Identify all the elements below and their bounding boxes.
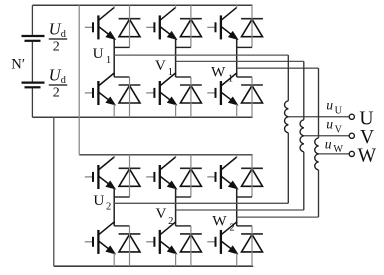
- svg-text:2: 2: [168, 216, 173, 227]
- inductor winding phase U: [285, 101, 289, 133]
- wire: W1 drop to winding W: [318, 68, 320, 138]
- wire: terminal tap U: [288, 116, 349, 118]
- wire: phase output W1: [237, 67, 319, 69]
- wire: V1 drop to winding V: [303, 61, 305, 119]
- wire: emitter stub QV1L to - rail: [175, 104, 177, 117]
- diode DU1L (freewheel lower leg U1): [119, 85, 141, 103]
- wire: emitter-diode jog upper leg W2: [237, 196, 252, 198]
- wire: diode DU1H branch vertical: [129, 5, 131, 47]
- wire: collector stub QW2H: [236, 155, 238, 158]
- diode DV1L (freewheel lower leg V1): [180, 85, 202, 103]
- wire: diode DW2H branch vertical: [251, 155, 253, 197]
- node U2 midpoint vertical: [113, 188, 115, 226]
- wire: emitter-diode jog upper leg U2: [114, 196, 129, 198]
- wire: left vertical - return to bottom bridge: [53, 117, 55, 266]
- wire: diode DV2L branch vertical: [190, 226, 192, 266]
- diode DW2L (freewheel lower leg W2): [241, 234, 263, 252]
- wire: left vertical + feed to bottom bridge: [78, 5, 80, 155]
- svg-text:U: U: [335, 105, 343, 116]
- wire: phase output U1: [114, 54, 288, 56]
- node U1 midpoint vertical: [113, 38, 115, 77]
- wire: emitter stub QW2L to - rail: [236, 253, 238, 266]
- diode DV2H (freewheel upper leg V2): [180, 168, 202, 186]
- wire: collector-diode jog lower leg V2: [176, 225, 191, 227]
- wire: diode DW1H branch vertical: [251, 5, 253, 47]
- wire: phase output U2: [114, 202, 288, 204]
- diode DU2H (freewheel upper leg U2): [119, 168, 141, 186]
- wire: emitter stub QV2L to - rail: [175, 253, 177, 266]
- diode DV2L (freewheel lower leg V2): [180, 234, 202, 252]
- capacitor C2 (Ud/2 lower): [22, 81, 45, 83]
- wire: diode DW1L branch vertical: [251, 77, 253, 117]
- wire: diode DV1L branch vertical: [190, 77, 192, 117]
- wire: emitter stub QU1L to - rail: [113, 104, 115, 117]
- wire: DC midrail (top bridge -, bottom bridge + feed): [32, 116, 252, 118]
- wire: diode DV1H branch vertical: [190, 5, 192, 47]
- wire: winding V to V2: [303, 152, 305, 210]
- svg-text:u: u: [326, 117, 333, 132]
- IGBT QW1H (upper switch leg W1): [207, 7, 237, 39]
- node W2 midpoint vertical: [236, 188, 238, 226]
- terminal W (circle): [349, 151, 354, 156]
- IGBT QW1L (lower switch leg W1): [207, 73, 237, 105]
- wire: diode DU2H branch vertical: [129, 155, 131, 197]
- wire: terminal tap W: [319, 153, 350, 155]
- svg-text:2: 2: [53, 85, 60, 100]
- wire: collector stub QU1H: [113, 5, 115, 8]
- wire: winding U to U2: [287, 133, 289, 204]
- svg-text:V: V: [156, 205, 167, 222]
- svg-text:N′: N′: [11, 56, 25, 72]
- wire: terminal tap V: [304, 135, 349, 137]
- svg-text:V: V: [155, 57, 166, 74]
- inductor winding phase W: [315, 138, 319, 170]
- wire: emitter-diode jog upper leg V2: [176, 196, 191, 198]
- node V2 midpoint vertical: [175, 188, 177, 226]
- wire: diode DW2L branch vertical: [251, 226, 253, 266]
- IGBT QV1L (lower switch leg V1): [146, 73, 176, 105]
- svg-text:W: W: [212, 213, 227, 230]
- IGBT QW2L (lower switch leg W2): [207, 222, 237, 254]
- svg-text:1: 1: [228, 74, 233, 85]
- wire: collector stub QU2H: [113, 155, 115, 158]
- wire: emitter-diode jog upper leg W1: [237, 46, 252, 48]
- wire: collector-diode jog lower leg W2: [237, 225, 252, 227]
- wire: diode DU2L branch vertical: [129, 226, 131, 266]
- terminal V (circle): [349, 133, 354, 138]
- IGBT QU1L (lower switch leg U1): [85, 73, 115, 105]
- svg-text:d: d: [61, 29, 67, 40]
- svg-text:U: U: [93, 45, 104, 62]
- diode DW1L (freewheel lower leg W1): [241, 85, 263, 103]
- diode DV1H (freewheel upper leg V1): [180, 19, 202, 37]
- svg-text:d: d: [61, 75, 67, 86]
- node W1 midpoint vertical: [236, 38, 238, 77]
- IGBT QW2H (upper switch leg W2): [207, 157, 237, 189]
- wire: phase output W2: [237, 216, 319, 218]
- terminal U (circle): [349, 114, 354, 119]
- wire: emitter-diode jog upper leg U1: [114, 46, 129, 48]
- IGBT QV2H (upper switch leg V2): [146, 157, 176, 189]
- wire: collector-diode jog lower leg W1: [237, 76, 252, 78]
- svg-text:U: U: [359, 108, 373, 129]
- svg-text:U: U: [93, 192, 104, 209]
- wire: collector stub QV2H: [175, 155, 177, 158]
- svg-text:u: u: [325, 136, 332, 151]
- diode DU2L (freewheel lower leg U2): [119, 234, 141, 252]
- svg-text:2: 2: [106, 201, 111, 212]
- wire: winding W to W2: [318, 170, 320, 217]
- IGBT QV1H (upper switch leg V1): [146, 7, 176, 39]
- capacitor C1 (Ud/2 upper): [22, 35, 45, 37]
- IGBT QU2H (upper switch leg U2): [85, 157, 115, 189]
- wire: bottom bridge + rail: [79, 154, 252, 156]
- wire: emitter stub QU2L to - rail: [113, 253, 115, 266]
- diode DW2H (freewheel upper leg W2): [241, 168, 263, 186]
- svg-text:u: u: [326, 98, 333, 113]
- svg-text:W: W: [211, 64, 226, 81]
- svg-text:2: 2: [229, 222, 234, 233]
- wire: collector-diode jog lower leg V1: [176, 76, 191, 78]
- wire: collector-diode jog lower leg U1: [114, 76, 129, 78]
- wire: DC-link capacitor branch vertical: [31, 5, 33, 117]
- svg-text:2: 2: [53, 39, 60, 54]
- IGBT QU1H (upper switch leg U1): [85, 7, 115, 39]
- svg-text:W: W: [333, 144, 343, 155]
- svg-text:V: V: [335, 124, 343, 135]
- wire: diode DV2H branch vertical: [190, 155, 192, 197]
- IGBT QU2L (lower switch leg U2): [85, 222, 115, 254]
- diode DW1H (freewheel upper leg W1): [241, 19, 263, 37]
- wire: collector stub QV1H: [175, 5, 177, 8]
- wire: negative DC rail (bottom bridge -): [54, 265, 253, 267]
- svg-text:W: W: [358, 145, 377, 166]
- wire: emitter stub QW1L to - rail: [236, 104, 238, 117]
- IGBT QV2L (lower switch leg V2): [146, 222, 176, 254]
- wire: U1 drop to winding U: [287, 55, 289, 101]
- wire: emitter-diode jog upper leg V1: [176, 46, 191, 48]
- wire: positive DC rail (top bridge +): [32, 4, 252, 6]
- inductor winding phase V: [300, 120, 304, 152]
- wire: phase output V1: [176, 60, 304, 62]
- svg-text:1: 1: [106, 55, 111, 66]
- wire: collector-diode jog lower leg U2: [114, 225, 129, 227]
- wire: collector stub QW1H: [236, 5, 238, 8]
- svg-text:1: 1: [168, 67, 173, 78]
- node V1 midpoint vertical: [175, 38, 177, 77]
- diode DU1H (freewheel upper leg U1): [119, 19, 141, 37]
- wire: phase output V2: [176, 209, 304, 211]
- wire: diode DU1L branch vertical: [129, 77, 131, 117]
